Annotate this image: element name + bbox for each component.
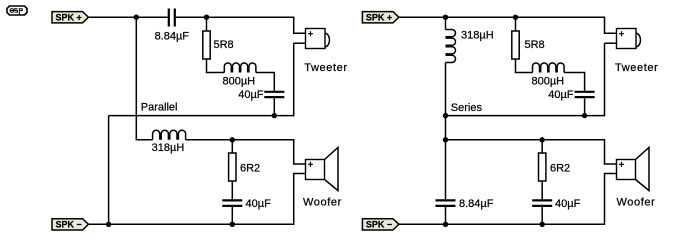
- svg-text:8.84µF: 8.84µF: [459, 198, 494, 210]
- svg-text:40µF: 40µF: [548, 89, 574, 101]
- svg-text:SPK +: SPK +: [56, 13, 82, 23]
- svg-text:800µH: 800µH: [222, 76, 255, 88]
- svg-text:318µH: 318µH: [461, 30, 494, 42]
- svg-text:SPK +: SPK +: [366, 13, 392, 23]
- svg-text:SPK −: SPK −: [56, 220, 82, 230]
- svg-text:Parallel: Parallel: [141, 102, 178, 114]
- svg-text:Woofer: Woofer: [303, 197, 342, 209]
- svg-text:Series: Series: [451, 102, 483, 114]
- svg-text:318µH: 318µH: [152, 142, 185, 154]
- svg-text:SPK −: SPK −: [366, 220, 392, 230]
- svg-text:6R2: 6R2: [550, 162, 570, 174]
- svg-text:40µF: 40µF: [246, 198, 272, 210]
- svg-text:8.84µF: 8.84µF: [155, 31, 190, 43]
- svg-text:40µF: 40µF: [555, 198, 581, 210]
- svg-text:800µH: 800µH: [531, 76, 564, 88]
- svg-text:40µF: 40µF: [238, 89, 264, 101]
- svg-text:5R8: 5R8: [214, 39, 234, 51]
- svg-text:5R8: 5R8: [525, 39, 545, 51]
- svg-text:Woofer: Woofer: [617, 197, 656, 209]
- svg-text:6R2: 6R2: [240, 162, 260, 174]
- svg-text:Tweeter: Tweeter: [615, 62, 658, 74]
- svg-text:Tweeter: Tweeter: [304, 62, 347, 74]
